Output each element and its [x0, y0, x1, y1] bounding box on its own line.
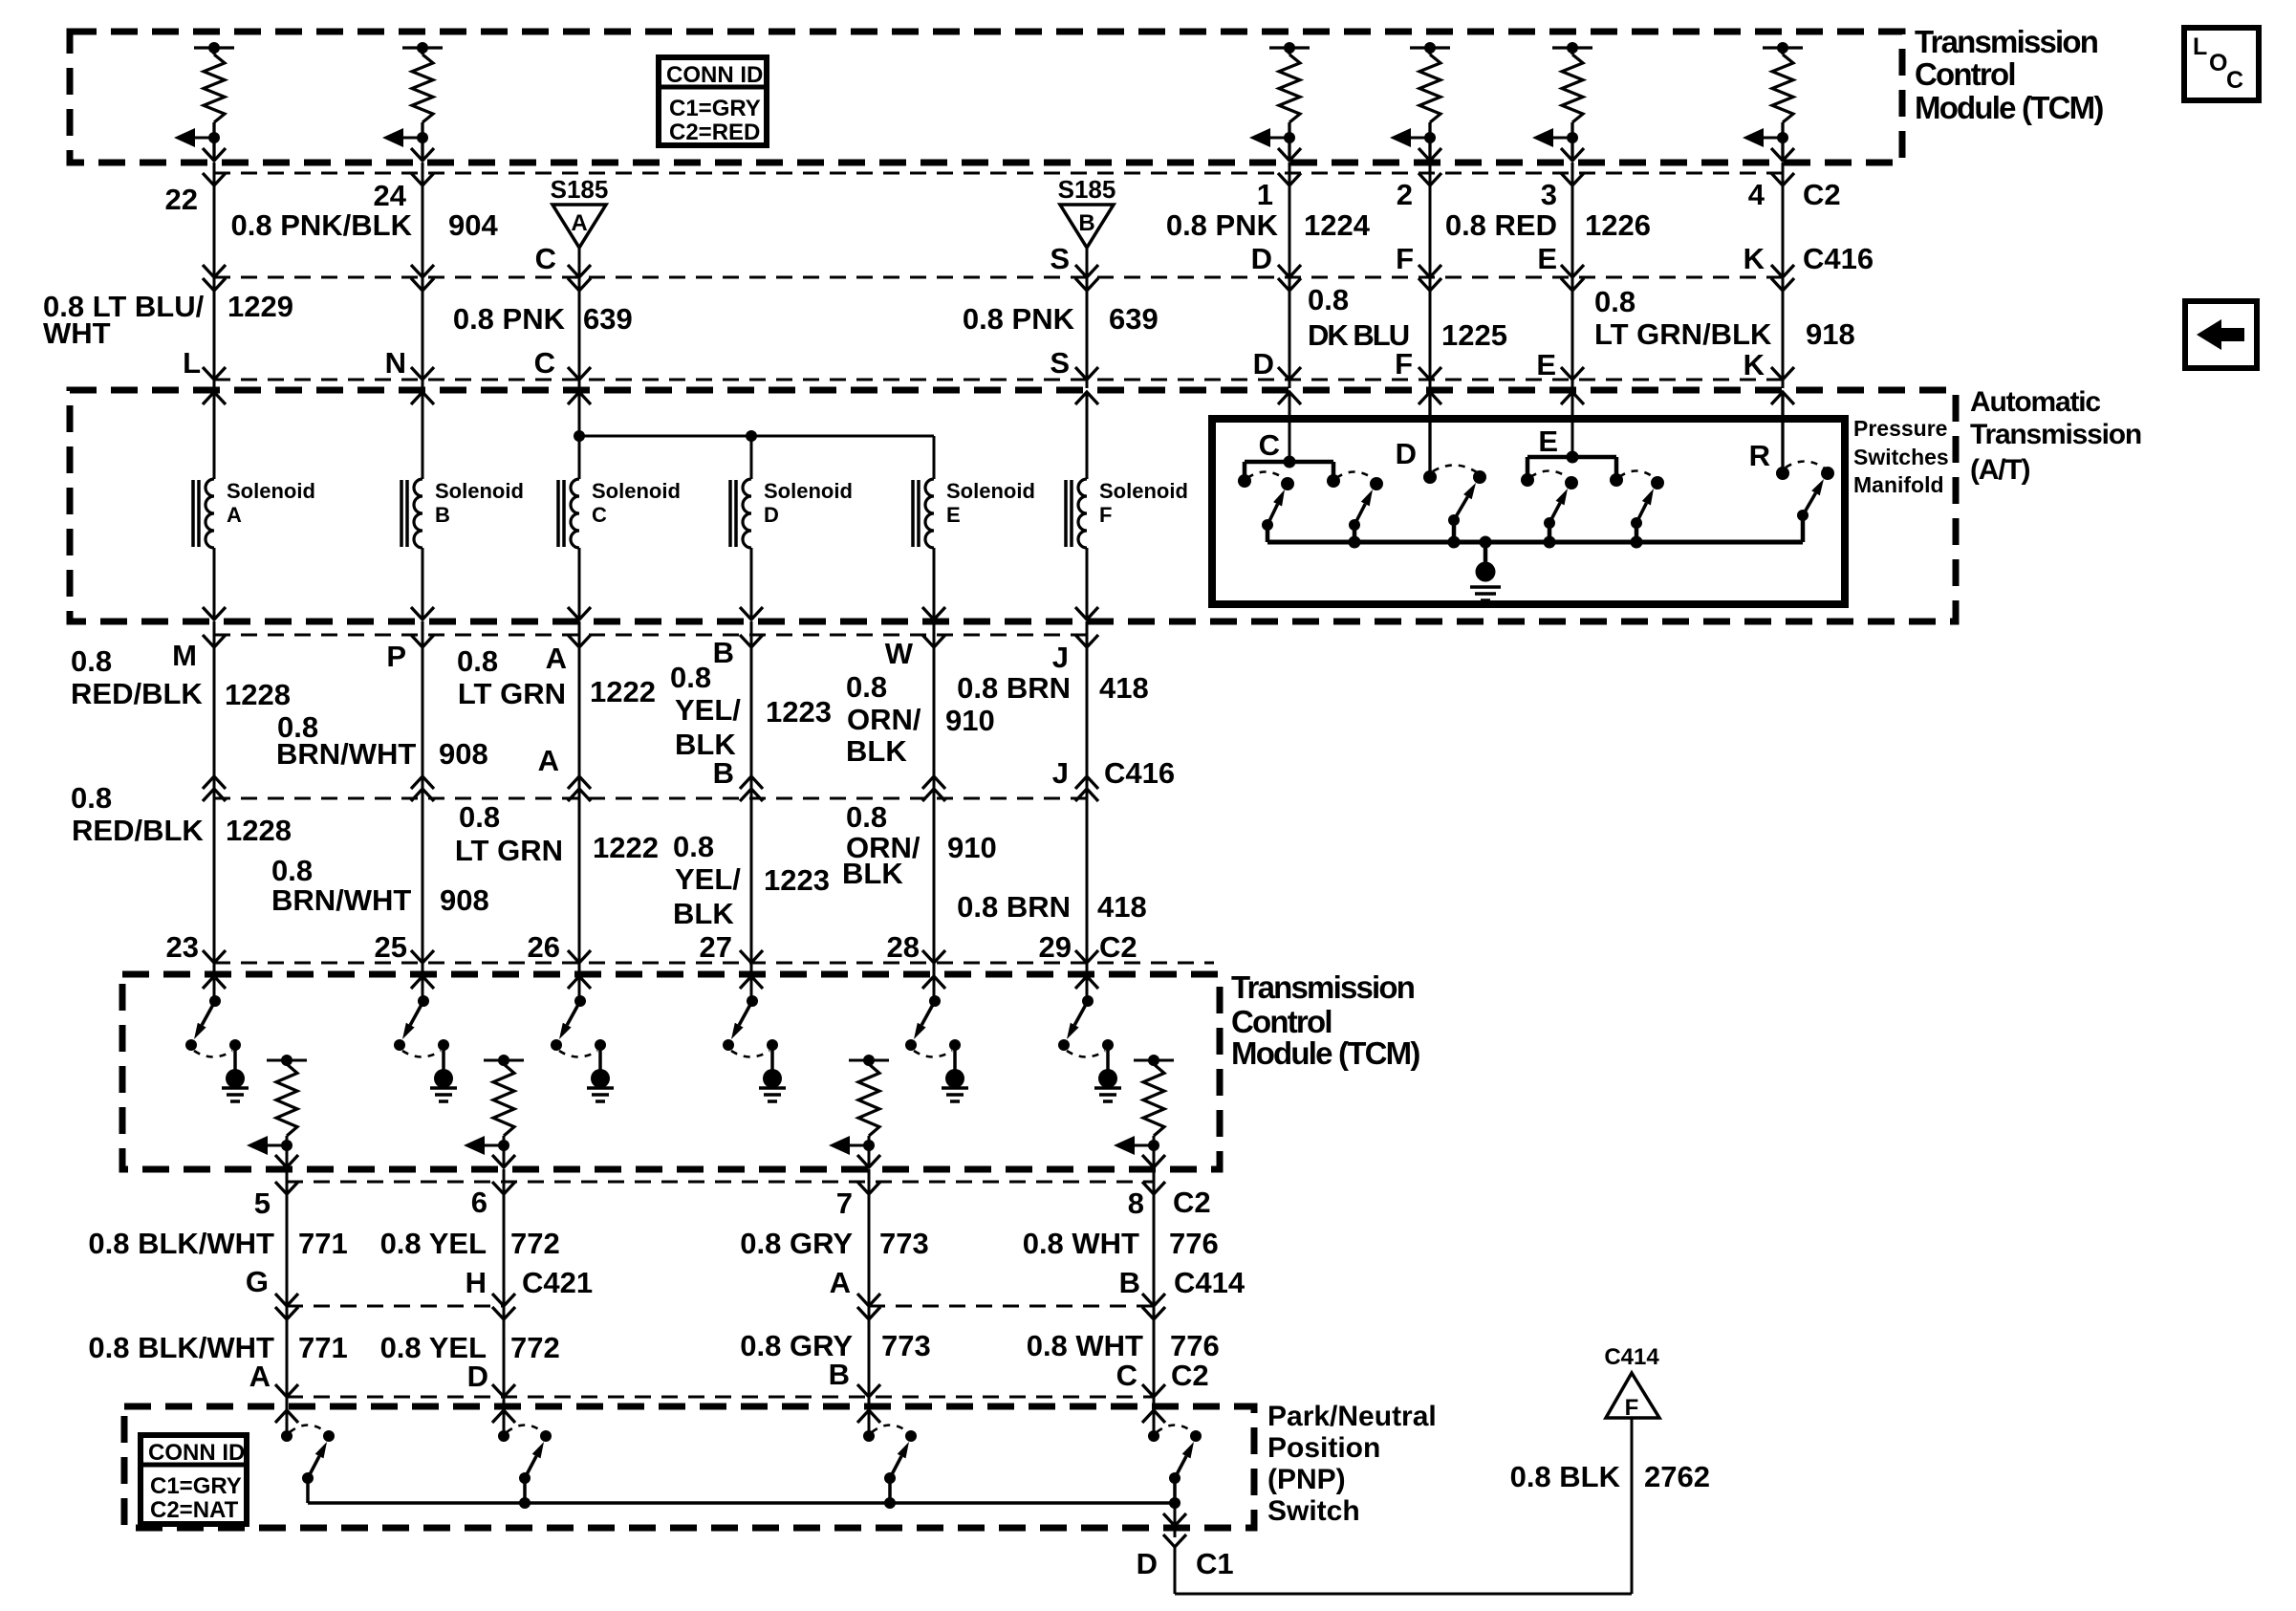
wire 2762 from PNP D to C414 — [1174, 1547, 1177, 1594]
svg-text:1: 1 — [1257, 178, 1273, 211]
svg-text:A: A — [571, 210, 587, 236]
svg-text:LT GRN: LT GRN — [455, 834, 563, 867]
svg-text:A: A — [249, 1360, 271, 1393]
svg-text:Module (TCM): Module (TCM) — [1231, 1035, 1419, 1071]
svg-text:0.8: 0.8 — [457, 644, 498, 678]
svg-text:0.8: 0.8 — [271, 854, 313, 887]
wire 1229 / 904 column 1 rows 1-2 — [213, 163, 216, 388]
svg-text:7: 7 — [836, 1186, 853, 1220]
wire 1224 rows 1-2 — [1289, 163, 1291, 388]
manifold feed wire E — [1561, 392, 1584, 404]
svg-text:0.8: 0.8 — [673, 830, 714, 863]
svg-text:F: F — [1625, 1395, 1639, 1421]
wire 918 rows 1-2 — [1782, 163, 1785, 388]
svg-text:R: R — [1749, 439, 1770, 472]
resistor R6 in top TCM — [1763, 46, 1803, 49]
svg-text:25: 25 — [375, 930, 407, 964]
svg-text:A: A — [546, 642, 567, 675]
svg-text:A: A — [227, 503, 242, 527]
ground symbol column 3 in lower TCM — [598, 1045, 602, 1070]
ground symbol column 6 in lower TCM — [1106, 1045, 1110, 1070]
svg-text:1222: 1222 — [590, 675, 656, 708]
left arrow reference box right side — [2185, 301, 2257, 368]
Park/Neutral Position (PNP) Switch dashed box — [124, 1406, 1254, 1528]
wire 772 rows 5-6 — [503, 1169, 506, 1436]
pressure switch E1 — [1565, 476, 1578, 490]
svg-text:J: J — [1052, 756, 1069, 790]
svg-text:0.8 BLK/WHT: 0.8 BLK/WHT — [88, 1227, 274, 1260]
svg-text:24: 24 — [374, 179, 407, 212]
svg-text:0.8 WHT: 0.8 WHT — [1027, 1329, 1143, 1362]
svg-text:C1: C1 — [1196, 1547, 1234, 1580]
svg-text:Automatic: Automatic — [1970, 386, 2100, 418]
svg-text:0.8: 0.8 — [846, 800, 887, 834]
svg-text:772: 772 — [510, 1331, 560, 1364]
connector line row2 bottom — [214, 379, 1783, 381]
svg-text:YEL/: YEL/ — [675, 693, 741, 727]
svg-text:22: 22 — [165, 183, 198, 216]
svg-text:C414: C414 — [1604, 1344, 1659, 1370]
svg-text:1225: 1225 — [1441, 318, 1507, 352]
svg-text:Pressure: Pressure — [1853, 416, 1947, 441]
resistor R1 in top TCM — [194, 46, 234, 49]
wire solenoid return column 4 rows 3-4 — [750, 621, 753, 974]
pressure switch E2 — [1651, 476, 1664, 490]
resistor R8 in lower TCM — [484, 1059, 524, 1062]
svg-text:F: F — [1396, 242, 1414, 275]
svg-text:0.8: 0.8 — [670, 661, 711, 694]
ground switch column 2 in lower TCM — [422, 974, 424, 1001]
ground symbol column 1 in lower TCM — [233, 1045, 237, 1070]
svg-text:2: 2 — [1397, 178, 1413, 211]
wire 639 column 3 from splice S185-A — [578, 248, 581, 388]
svg-text:Solenoid: Solenoid — [435, 479, 524, 503]
svg-text:BLK: BLK — [842, 857, 903, 890]
resistor R7 in lower TCM — [267, 1059, 307, 1062]
resistor R10 in lower TCM — [1134, 1059, 1174, 1062]
svg-text:F: F — [1395, 347, 1413, 381]
svg-text:908: 908 — [440, 883, 489, 917]
wire solenoid return column 5 rows 3-4 — [933, 621, 936, 974]
svg-text:5: 5 — [254, 1186, 271, 1220]
svg-text:A: A — [830, 1266, 851, 1299]
svg-text:1228: 1228 — [225, 678, 291, 711]
resistor R2 in top TCM — [402, 46, 443, 49]
svg-text:C2: C2 — [1099, 930, 1137, 964]
connector line C414 row5/row6 right segment — [869, 1305, 1154, 1308]
svg-text:910: 910 — [945, 704, 995, 737]
solenoid A — [203, 392, 226, 404]
manifold ground — [1480, 536, 1492, 549]
TCM lower box dashed outline — [122, 974, 1220, 1169]
svg-text:28: 28 — [887, 930, 920, 964]
svg-text:BRN/WHT: BRN/WHT — [271, 883, 411, 917]
svg-text:904: 904 — [448, 208, 498, 242]
PNP switch contact 2 — [503, 1411, 506, 1436]
svg-text:B: B — [713, 756, 734, 790]
svg-text:0.8 GRY: 0.8 GRY — [740, 1227, 853, 1260]
svg-text:DK BLU: DK BLU — [1308, 318, 1409, 352]
svg-text:C: C — [534, 346, 555, 380]
pressure switch D — [1473, 470, 1486, 484]
svg-text:8: 8 — [1128, 1186, 1144, 1220]
wire solenoid return column 2 rows 3-4 — [422, 621, 424, 974]
svg-text:B: B — [713, 636, 734, 669]
svg-text:776: 776 — [1169, 1227, 1219, 1260]
svg-text:1222: 1222 — [593, 831, 659, 864]
svg-text:W: W — [885, 637, 914, 670]
svg-text:O: O — [2209, 50, 2227, 76]
svg-text:B: B — [435, 503, 450, 527]
resistor R5 in top TCM — [1552, 46, 1592, 49]
ground symbol column 5 in lower TCM — [953, 1045, 957, 1070]
svg-text:418: 418 — [1097, 890, 1147, 924]
svg-text:C2: C2 — [1173, 1186, 1211, 1219]
svg-text:0.8 WHT: 0.8 WHT — [1023, 1227, 1139, 1260]
svg-text:B: B — [1119, 1266, 1140, 1299]
svg-text:C421: C421 — [522, 1266, 593, 1299]
svg-text:BRN/WHT: BRN/WHT — [276, 737, 416, 771]
svg-text:CONN ID: CONN ID — [666, 62, 763, 88]
svg-text:0.8 YEL: 0.8 YEL — [380, 1227, 487, 1260]
manifold feed wire D — [1419, 392, 1441, 404]
manifold node C bracket — [1245, 460, 1333, 465]
svg-text:N: N — [385, 346, 406, 380]
svg-text:YEL/: YEL/ — [675, 862, 741, 896]
CONN ID legend box top (C1=GRY C2=RED) — [659, 57, 767, 145]
connector line C2 below lower TCM — [287, 1181, 1154, 1184]
svg-text:0.8 BRN: 0.8 BRN — [957, 890, 1071, 924]
svg-text:Transmission: Transmission — [1970, 419, 2141, 450]
svg-text:0.8: 0.8 — [459, 800, 500, 834]
svg-text:Solenoid: Solenoid — [592, 479, 681, 503]
solenoid E — [933, 436, 936, 479]
svg-text:C414: C414 — [1174, 1266, 1245, 1299]
solenoid D — [750, 436, 753, 479]
svg-text:E: E — [1538, 425, 1558, 458]
svg-text:LT GRN/BLK: LT GRN/BLK — [1594, 317, 1772, 351]
svg-text:771: 771 — [298, 1331, 348, 1364]
wire 1225 rows 1-2 — [1429, 163, 1432, 388]
PNP switch contact 4 — [1153, 1411, 1156, 1436]
svg-text:0.8 PNK: 0.8 PNK — [453, 302, 566, 336]
svg-text:D: D — [467, 1360, 488, 1393]
ground symbol column 2 in lower TCM — [442, 1045, 445, 1070]
svg-text:Solenoid: Solenoid — [227, 479, 315, 503]
svg-text:BLK: BLK — [846, 734, 907, 768]
svg-text:776: 776 — [1170, 1329, 1220, 1362]
svg-text:(PNP): (PNP) — [1267, 1464, 1346, 1495]
svg-text:E: E — [946, 503, 961, 527]
manifold node E bracket — [1527, 455, 1616, 460]
svg-text:C2: C2 — [1803, 178, 1841, 211]
PNP switch contact 1 — [286, 1411, 289, 1436]
svg-text:S: S — [1050, 242, 1070, 275]
svg-text:772: 772 — [510, 1227, 560, 1260]
svg-text:0.8 BLK/WHT: 0.8 BLK/WHT — [88, 1331, 274, 1364]
svg-text:23: 23 — [166, 930, 199, 964]
connector line row3 top — [214, 634, 1094, 637]
svg-text:F: F — [1099, 503, 1112, 527]
svg-text:M: M — [172, 639, 197, 672]
wire solenoid return column 6 rows 3-4 — [1086, 621, 1089, 974]
svg-text:4: 4 — [1748, 178, 1765, 211]
svg-text:D: D — [764, 503, 779, 527]
svg-text:RED/BLK: RED/BLK — [72, 814, 204, 847]
svg-text:RED/BLK: RED/BLK — [71, 677, 203, 710]
svg-text:Control: Control — [1231, 1004, 1332, 1039]
wire 773 rows 5-6 — [868, 1169, 871, 1436]
svg-text:Solenoid: Solenoid — [764, 479, 853, 503]
svg-text:LT GRN: LT GRN — [458, 677, 566, 710]
svg-text:771: 771 — [298, 1227, 348, 1260]
svg-text:L: L — [183, 346, 201, 380]
svg-text:1223: 1223 — [764, 863, 830, 897]
svg-text:918: 918 — [1806, 317, 1855, 351]
LOC reference box top right — [2184, 28, 2259, 100]
ground switch column 5 in lower TCM — [933, 974, 936, 1001]
svg-text:0.8: 0.8 — [1308, 283, 1349, 316]
wire 771 rows 5-6 — [286, 1169, 289, 1436]
svg-text:C2=RED: C2=RED — [669, 120, 760, 145]
ground switch column 4 in lower TCM — [750, 974, 753, 1001]
svg-text:S: S — [1050, 346, 1070, 380]
pressure switch C2 — [1370, 477, 1383, 490]
Automatic Transmission (A/T) dashed box — [70, 390, 1956, 621]
svg-text:639: 639 — [583, 302, 633, 336]
svg-text:0.8 PNK/BLK: 0.8 PNK/BLK — [231, 208, 413, 242]
svg-text:(A/T): (A/T) — [1970, 454, 2030, 486]
svg-text:K: K — [1744, 242, 1765, 275]
svg-text:Manifold: Manifold — [1853, 472, 1944, 497]
svg-text:0.8 BRN: 0.8 BRN — [957, 671, 1071, 705]
svg-text:0.8: 0.8 — [1594, 285, 1635, 318]
svg-text:A: A — [538, 744, 559, 777]
PNP switch contact 3 — [868, 1411, 871, 1436]
wire 639 column 6 from splice S185-B — [1086, 248, 1089, 388]
svg-text:1229: 1229 — [227, 290, 293, 323]
connector D C1 of PNP switch — [1163, 1535, 1186, 1547]
ground switch column 6 in lower TCM — [1086, 974, 1089, 1001]
manifold common bus wire — [1267, 540, 1803, 545]
svg-text:0.8 BLK: 0.8 BLK — [1510, 1460, 1621, 1493]
svg-text:29: 29 — [1039, 930, 1072, 964]
ground switch column 3 in lower TCM — [578, 974, 581, 1001]
svg-text:26: 26 — [528, 930, 560, 964]
svg-text:1226: 1226 — [1585, 208, 1651, 242]
PNP output wire to pin D — [1174, 1503, 1177, 1537]
svg-text:27: 27 — [700, 930, 732, 964]
svg-text:1224: 1224 — [1304, 208, 1371, 242]
wire 904 column 2 rows 1-2 — [422, 163, 424, 388]
svg-text:418: 418 — [1099, 671, 1149, 705]
svg-text:WHT: WHT — [43, 316, 111, 350]
svg-text:ORN/: ORN/ — [847, 703, 921, 736]
PNP common bus wire — [308, 1501, 1175, 1505]
svg-text:CONN ID: CONN ID — [148, 1440, 245, 1466]
svg-text:L: L — [2193, 33, 2207, 60]
svg-text:0.8: 0.8 — [71, 781, 112, 815]
TCM top box (Transmission Control Module) dashed outline — [70, 32, 1902, 163]
svg-text:Solenoid: Solenoid — [1099, 479, 1188, 503]
svg-text:D: D — [1396, 437, 1417, 470]
svg-text:Control: Control — [1915, 56, 2015, 92]
svg-text:908: 908 — [439, 737, 488, 771]
svg-text:BLK: BLK — [673, 897, 734, 930]
svg-text:Transmission: Transmission — [1231, 969, 1415, 1005]
resistor R9 in lower TCM — [849, 1059, 889, 1062]
svg-text:S185: S185 — [551, 175, 609, 204]
connector line row6 bottom — [287, 1396, 1154, 1399]
wire 776 rows 5-6 — [1153, 1169, 1156, 1436]
svg-text:D: D — [1253, 347, 1274, 381]
svg-text:Solenoid: Solenoid — [946, 479, 1035, 503]
ground symbol column 4 in lower TCM — [770, 1045, 774, 1070]
svg-text:C416: C416 — [1104, 756, 1175, 790]
svg-text:S185: S185 — [1058, 175, 1116, 204]
svg-text:E: E — [1536, 348, 1556, 381]
svg-text:Module (TCM): Module (TCM) — [1915, 90, 2103, 125]
svg-text:Transmission: Transmission — [1915, 24, 2098, 59]
resistor R4 in top TCM — [1410, 46, 1450, 49]
solenoid B — [411, 392, 434, 404]
svg-text:773: 773 — [881, 1329, 931, 1362]
svg-text:0.8: 0.8 — [846, 670, 887, 704]
svg-text:Switch: Switch — [1267, 1495, 1360, 1527]
ground switch column 1 in lower TCM — [213, 974, 216, 1001]
svg-text:3: 3 — [1541, 178, 1557, 211]
svg-text:6: 6 — [471, 1186, 487, 1219]
pressure switch R — [1821, 467, 1834, 480]
wire 1226 rows 1-2 — [1571, 163, 1574, 388]
connector line C421 row5/row6 left segment — [287, 1305, 504, 1308]
svg-text:Park/Neutral: Park/Neutral — [1267, 1401, 1437, 1432]
jumper wire solenoid C-D-E feed — [579, 435, 934, 438]
svg-text:B: B — [829, 1358, 850, 1391]
Pressure Switches Manifold box — [1212, 419, 1845, 604]
svg-text:1223: 1223 — [766, 695, 832, 729]
svg-text:910: 910 — [947, 831, 997, 864]
svg-text:C416: C416 — [1803, 242, 1874, 275]
resistor R3 in top TCM — [1269, 46, 1310, 49]
svg-text:B: B — [1078, 210, 1094, 236]
CONN ID legend box lower (C1=GRY C2=NAT) — [141, 1435, 247, 1524]
wire solenoid return column 3 rows 3-4 — [578, 621, 581, 974]
svg-text:C: C — [1259, 428, 1280, 462]
solenoid C — [568, 392, 591, 404]
connector line row1/row2 — [214, 276, 1783, 279]
svg-text:C: C — [592, 503, 607, 527]
svg-text:C1=GRY: C1=GRY — [150, 1473, 242, 1499]
svg-text:C: C — [1116, 1359, 1137, 1392]
solenoid F — [1075, 392, 1098, 404]
svg-text:E: E — [1537, 242, 1557, 275]
svg-text:G: G — [246, 1265, 269, 1298]
svg-text:C: C — [535, 242, 556, 275]
svg-text:C2: C2 — [1171, 1359, 1209, 1392]
svg-text:2762: 2762 — [1644, 1460, 1710, 1493]
svg-text:H: H — [466, 1266, 487, 1299]
svg-text:Switches: Switches — [1853, 445, 1949, 469]
svg-text:0.8 RED: 0.8 RED — [1445, 208, 1557, 242]
svg-text:C1=GRY: C1=GRY — [669, 96, 761, 121]
svg-text:0.8: 0.8 — [71, 644, 112, 678]
svg-text:J: J — [1052, 641, 1069, 674]
manifold feed wire C — [1278, 392, 1301, 404]
connector line row4 bottom — [214, 962, 1214, 965]
svg-text:0.8 PNK: 0.8 PNK — [963, 302, 1075, 336]
svg-text:D: D — [1137, 1547, 1158, 1580]
manifold feed wire R — [1771, 392, 1794, 404]
svg-text:C: C — [2226, 67, 2243, 94]
svg-text:639: 639 — [1109, 302, 1159, 336]
svg-text:0.8 PNK: 0.8 PNK — [1166, 208, 1279, 242]
svg-text:K: K — [1744, 348, 1765, 381]
svg-text:C2=NAT: C2=NAT — [150, 1497, 239, 1523]
svg-text:D: D — [1251, 242, 1272, 275]
svg-text:1228: 1228 — [226, 814, 292, 847]
svg-text:P: P — [386, 640, 406, 673]
wire solenoid return column 1 rows 3-4 — [213, 621, 216, 974]
svg-text:Position: Position — [1267, 1432, 1380, 1464]
svg-text:773: 773 — [879, 1227, 929, 1260]
connector line C416 row3/row4 — [214, 797, 1094, 800]
pressure switch C1 — [1281, 477, 1294, 490]
connector line row1 top — [214, 172, 1783, 175]
